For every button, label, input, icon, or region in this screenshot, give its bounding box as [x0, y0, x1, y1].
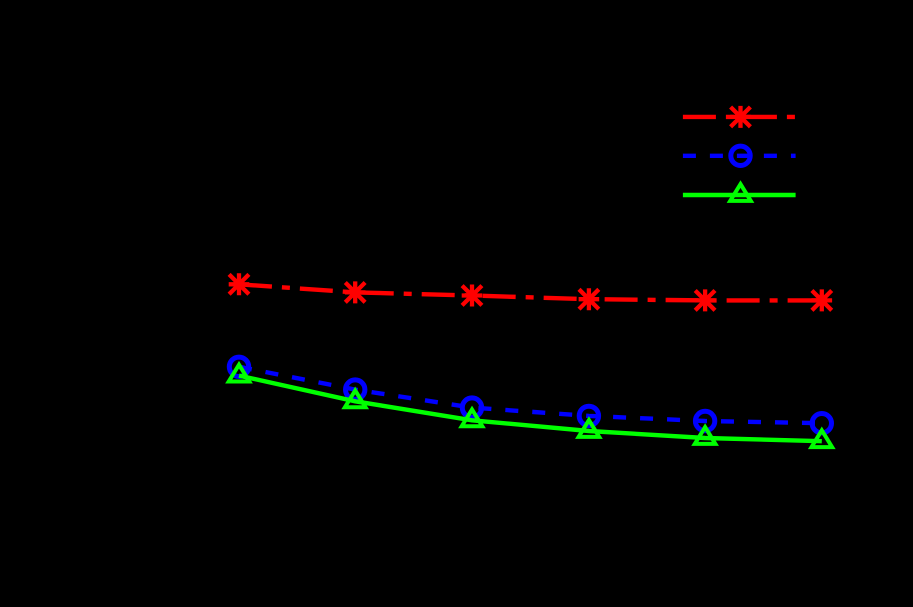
- green solid series line: [239, 376, 822, 442]
- red series marker 2 (asterisk): [345, 281, 366, 303]
- legend green marker L3 (open triangle): [730, 184, 751, 201]
- red series marker 3 (asterisk): [462, 285, 483, 307]
- red series marker 5 (asterisk): [695, 289, 716, 311]
- blue series marker 5 (open circle): [695, 411, 714, 430]
- green series marker 6 (open triangle): [812, 430, 833, 447]
- blue series marker 1 (open circle): [229, 357, 248, 376]
- blue series marker 3 (open circle): [462, 398, 481, 417]
- green series marker 1 (open triangle): [229, 365, 250, 382]
- blue series marker 4 (open circle): [579, 406, 598, 425]
- green series marker 3 (open triangle): [462, 409, 483, 426]
- legend entry 1: red dash-dot sample line: [683, 115, 796, 119]
- green series marker 2 (open triangle): [345, 390, 366, 407]
- red series marker 1 (asterisk): [229, 273, 250, 295]
- legend red marker L1 (asterisk): [730, 106, 751, 128]
- blue series marker 2 (open circle): [346, 380, 365, 399]
- red series marker 6 (asterisk): [812, 289, 833, 311]
- red series marker 4 (asterisk): [579, 288, 600, 310]
- legend entry 3: green solid sample line: [683, 193, 796, 197]
- legend entry 2: blue dashed sample line: [683, 154, 796, 158]
- red dash-dot series line: [239, 284, 822, 300]
- blue series marker 6 (open circle): [812, 414, 831, 433]
- green series marker 4 (open triangle): [579, 420, 600, 437]
- legend blue marker L2 (open circle): [731, 146, 750, 165]
- blue dashed series line: [239, 367, 822, 423]
- green series marker 5 (open triangle): [695, 427, 716, 444]
